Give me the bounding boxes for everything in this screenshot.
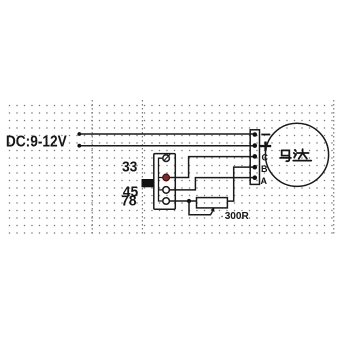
switch common bracket [159, 158, 163, 201]
motor label 马 [280, 150, 291, 161]
svg-text:DC:9-12V: DC:9-12V [6, 134, 67, 151]
connector pin 4 [253, 165, 258, 170]
wire contact3 to connector pin A [169, 178, 254, 190]
wire contact2 to connector pin C [169, 157, 254, 178]
node dot DC plus [77, 144, 81, 148]
connector pin 3 [253, 154, 258, 159]
svg-text:A: A [261, 176, 268, 186]
wire DC plus to connector pin 2 [79, 145, 254, 147]
svg-text:78: 78 [121, 193, 136, 210]
wire contact4 to resistor left [169, 200, 196, 202]
wiper arrowhead [211, 207, 215, 212]
svg-text:33: 33 [122, 159, 137, 176]
switch contact 1 [163, 155, 170, 162]
switch contact 2 (selected, red) [163, 174, 170, 181]
label minus [261, 134, 270, 136]
switch contact 3 [163, 187, 170, 194]
switch slider knob [142, 179, 154, 187]
switch contact 1 lever [164, 154, 170, 161]
switch contact 4 [163, 198, 170, 205]
label plus [260, 145, 271, 147]
motor label 达 [293, 149, 311, 160]
connector J1 body [250, 130, 259, 185]
resistor R1 body [197, 198, 228, 208]
switch SW1 body [154, 154, 176, 210]
connector pin 5 [253, 175, 258, 180]
node dot DC minus [77, 132, 81, 136]
connector pin 2 [253, 143, 258, 148]
wire resistor right to connector pin B [227, 167, 254, 201]
motor M1 circle [265, 123, 328, 186]
wiper wire from junction [189, 201, 213, 215]
svg-text:300R: 300R [225, 211, 250, 222]
wire DC minus to connector pin 1 [79, 133, 254, 135]
connector pin 1 [253, 132, 258, 137]
junction dot [187, 199, 191, 203]
